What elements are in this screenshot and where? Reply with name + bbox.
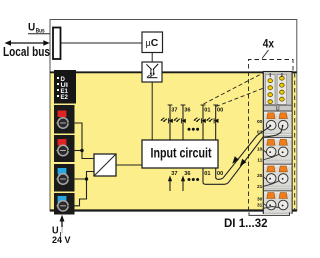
IO module 2 — [263, 138, 293, 163]
LED indicator block — [54, 70, 76, 104]
channel line 01 above — [201, 105, 211, 140]
svg-text:00: 00 — [217, 107, 223, 113]
svg-text:01: 01 — [204, 171, 210, 177]
DI bracket — [249, 212, 290, 215]
LED D00 — [206, 118, 218, 124]
wire channel 00 to terminal 00 — [216, 126, 272, 180]
terminal T2 (red) — [54, 135, 75, 162]
arrowhead on 01 wire — [240, 159, 247, 166]
LED D36 — [173, 118, 185, 124]
contact pins — [269, 73, 271, 77]
LED D37 — [160, 118, 172, 124]
svg-text:00: 00 — [257, 119, 263, 125]
svg-text:Local bus: Local bus — [3, 44, 50, 59]
svg-text:20: 20 — [257, 173, 263, 179]
bus bracket — [53, 28, 61, 60]
svg-text:10: 10 — [257, 146, 263, 152]
wire optocoupler to input circuit — [151, 82, 153, 140]
svg-text:36: 36 — [184, 171, 190, 177]
wire T2 to bus1 — [68, 150, 82, 152]
svg-text:11: 11 — [257, 157, 262, 163]
dots between 36 and 01 — [188, 128, 200, 131]
terminal strip body — [263, 72, 292, 214]
svg-text:01: 01 — [204, 107, 210, 113]
svg-text:00: 00 — [217, 171, 223, 177]
svg-text:37: 37 — [171, 107, 177, 113]
channel line 36 above — [181, 105, 191, 140]
svg-text:DI 1...32: DI 1...32 — [224, 216, 268, 230]
contact ovals right — [280, 76, 285, 101]
wire converter to input circuit — [116, 164, 142, 166]
node bus1 junction — [80, 149, 83, 152]
arrow input 37 — [168, 176, 172, 192]
terminal T3 (blue) — [54, 164, 75, 192]
connector contact columns — [263, 73, 292, 110]
IO module 3 — [263, 164, 293, 189]
terminal T1 (red) — [54, 105, 75, 134]
module top border — [50, 71, 297, 73]
channel line 37 above — [168, 105, 178, 140]
svg-text:21: 21 — [257, 184, 263, 190]
wire T3 to bus2 — [68, 178, 87, 180]
outer frame — [50, 20, 297, 211]
contact ovals left — [268, 79, 273, 104]
svg-text:U: U — [28, 22, 35, 34]
wire bracket to uC — [61, 42, 142, 44]
microcontroller uC — [142, 32, 163, 53]
wire stubs module 4 — [263, 203, 268, 207]
IO module 1 — [263, 111, 292, 136]
4x dashed bracket box — [249, 60, 294, 212]
svg-text:37: 37 — [171, 171, 177, 177]
svg-text:24 V: 24 V — [52, 235, 71, 245]
input circuit box — [142, 140, 218, 168]
DC/DC converter — [94, 154, 116, 176]
U_Bus underline — [28, 33, 50, 35]
wire uC to optocoupler — [151, 53, 153, 63]
dashed pointer line upper — [204, 73, 265, 105]
node bus2 junction — [85, 177, 88, 180]
LED D01 — [193, 118, 205, 124]
svg-text:31: 31 — [257, 203, 263, 209]
module body (yellow) — [51, 72, 297, 211]
terminal T4 (blue) — [54, 193, 75, 215]
wire T1 to bus1 — [68, 123, 94, 159]
dashed pointer line lower — [216, 88, 264, 107]
arrowhead on 00 wire — [232, 156, 239, 163]
svg-text:E2: E2 — [61, 94, 69, 101]
svg-text:4x: 4x — [263, 37, 275, 51]
svg-text:36: 36 — [184, 107, 190, 113]
IO module 4 — [263, 191, 292, 214]
arrow input 36 — [181, 176, 185, 192]
channel line 00 above — [213, 105, 223, 140]
svg-text:Input circuit: Input circuit — [151, 146, 212, 161]
supply arrow — [60, 215, 65, 234]
local bus arrow — [7, 42, 48, 44]
dashed separator right — [294, 73, 296, 210]
optocoupler U2 — [142, 62, 162, 82]
wire T4 to bus2 — [68, 172, 94, 206]
wire channel 01 to terminal 01 — [203, 127, 283, 185]
svg-text:C: C — [151, 38, 159, 49]
module bottom border — [50, 209, 297, 211]
dots below — [188, 178, 200, 181]
svg-text:30: 30 — [257, 197, 263, 203]
